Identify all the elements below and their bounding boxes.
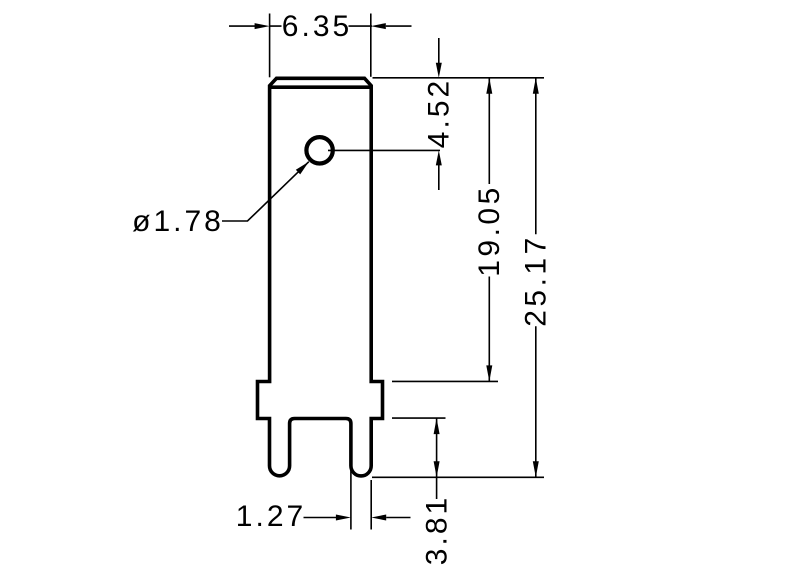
dimension 25.17: bottom arrow (points down) bbox=[533, 461, 539, 477]
svg-text:ø1.78: ø1.78 bbox=[132, 205, 224, 238]
svg-text:19.05: 19.05 bbox=[473, 184, 506, 277]
svg-text:6.35: 6.35 bbox=[282, 10, 352, 43]
dimension 25.17: top arrow (points up) bbox=[533, 78, 539, 94]
dimension 4.52: upper arrow (points down) with tail bbox=[436, 38, 442, 78]
dimension 3.81: top extension line at flange bottom bbox=[392, 417, 446, 419]
part outline: solder tab terminal body with flange and two pins bbox=[258, 78, 383, 476]
dimension 6.35: left extension line bbox=[269, 14, 271, 78]
dimension 19.05: value label (rotated) bbox=[473, 184, 506, 277]
dimension 6.35: value label bbox=[282, 10, 352, 43]
dimension 1.27: left extension line (pin inner edge) bbox=[350, 470, 352, 530]
dimension 25.17: value label (rotated) bbox=[519, 234, 552, 327]
dimension 1.27: value label bbox=[236, 500, 306, 533]
dimension 6.35: right extension line bbox=[370, 14, 372, 77]
dimension 3.81: dimension line with tail below bbox=[436, 418, 438, 499]
dimension 19.05: dimension line segments bbox=[488, 78, 490, 382]
dimension 1.27: left arrow (points right) with tail bbox=[304, 515, 351, 521]
svg-text:3.81: 3.81 bbox=[421, 495, 454, 565]
dimension 1.27: right arrow (points left) with tail bbox=[371, 515, 410, 521]
hole callout label ø1.78 bbox=[132, 205, 224, 238]
dimension 3.81: value label (rotated) bbox=[421, 495, 454, 565]
dimension 19.05: bottom extension line at shoulder bbox=[392, 380, 498, 382]
svg-text:4.52: 4.52 bbox=[422, 78, 455, 148]
leader line for hole callout bbox=[222, 162, 309, 221]
dimension 1.27: right extension line (pin outer edge) bbox=[370, 480, 372, 530]
dimension 4.52: lower arrow (points up) with tail bbox=[436, 150, 442, 190]
dimension 25.17: bottom extension line at pin tips bbox=[372, 476, 544, 478]
dimension 3.81: bottom arrow (points down) bbox=[434, 461, 440, 477]
svg-text:25.17: 25.17 bbox=[519, 234, 552, 327]
dimension 25.17: dimension line segments bbox=[535, 78, 537, 478]
dimension 6.35: right arrow (points left) with tail bbox=[371, 23, 412, 29]
dimension 19.05: top arrow (points up) bbox=[486, 78, 492, 94]
dimension 4.52: value label (rotated) bbox=[422, 78, 455, 148]
dimension 3.81: top arrow (points up) bbox=[434, 418, 440, 434]
chamfer edge line across top of tab bbox=[270, 85, 372, 89]
dimension 6.35: left arrow (points right) with tail bbox=[229, 23, 270, 29]
svg-text:1.27: 1.27 bbox=[236, 500, 306, 533]
dimension 6.35: dimension line segments bbox=[270, 25, 372, 27]
dimension 19.05: bottom arrow (points down) bbox=[486, 365, 492, 381]
hole ø1.78 bbox=[306, 137, 332, 163]
top reference extension line (for 4.52 / 19.05 / 25.17) bbox=[373, 77, 545, 79]
hole centerline extension to the right bbox=[328, 149, 440, 151]
